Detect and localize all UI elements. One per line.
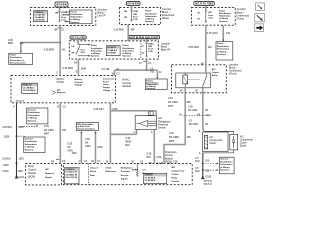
svg-text:Signal: Signal [45, 177, 52, 179]
label Body Control Module (BCM) [28, 165, 37, 178]
svg-text:DK GRN/: DK GRN/ [168, 101, 178, 104]
svg-text:Systems: Systems [145, 20, 154, 23]
label 0.8 BLK 1050 [2, 158, 24, 161]
wire DK GRN/WHT 766 HVAC pin B to BCM [59, 103, 61, 164]
svg-text:5 V: 5 V [142, 170, 146, 172]
label 0.35 RED/BLK (sensor low ref) [126, 137, 132, 147]
svg-text:in Wiring: in Wiring [219, 17, 229, 20]
svg-text:DK: DK [68, 146, 72, 149]
svg-text:5 Volt: 5 Volt [106, 167, 112, 170]
svg-text:Diode: Diode [240, 144, 247, 147]
svg-text:0.35 ORN: 0.35 ORN [188, 46, 199, 49]
banner HOT AT ALL TIMES (mid-left) [70, 36, 86, 40]
reference ground distribution (upper left) [27, 108, 48, 124]
svg-text:Left I/P: Left I/P [98, 15, 106, 18]
svg-text:Systems: Systems [217, 53, 227, 56]
label 0.35 ORN 1840 [63, 67, 87, 71]
HVAC bottom pins K, B C2 [13, 106, 66, 109]
svg-text:Wiring Systems: Wiring Systems [10, 61, 27, 64]
svg-text:10 A: 10 A [208, 16, 213, 19]
svg-text:Supply: Supply [103, 87, 111, 89]
label 0.35 BRN 141 (branch) [8, 39, 24, 45]
svg-text:HOT AT ALL TIMES: HOT AT ALL TIMES [71, 36, 85, 40]
serial data wires to data link reference [81, 131, 97, 163]
svg-text:C: C [56, 72, 58, 75]
svg-text:in Wiring: in Wiring [122, 52, 132, 55]
A/C refrigerant pressure sensor (solid box with transducer symbol) [135, 112, 156, 130]
svg-text:Request: Request [57, 91, 66, 94]
svg-text:Right I/P: Right I/P [161, 49, 171, 52]
svg-text:2750: 2750 [112, 108, 118, 111]
svg-text:FUSE ID: FUSE ID [107, 47, 116, 49]
body control module BCM (dashed box) [26, 163, 62, 185]
label 0.35 RED/BLK 2701 [147, 152, 163, 159]
svg-text:0.35: 0.35 [188, 105, 193, 108]
svg-text:766: 766 [62, 129, 67, 132]
svg-text:Schematics: Schematics [220, 163, 233, 166]
fuse A/C CRUISE 10A [55, 11, 70, 22]
svg-text:HOT IN RUN AND START: HOT IN RUN AND START [130, 35, 159, 39]
svg-text:Relay: Relay [212, 75, 219, 77]
svg-text:Ground: Ground [16, 101, 25, 103]
svg-text:C2 48 BLK: C2 48 BLK [145, 179, 156, 182]
label 0.35 GRY 2750 [94, 108, 119, 111]
svg-text:C200 ID: C200 ID [145, 175, 153, 177]
svg-text:WHT: WHT [168, 105, 174, 108]
svg-text:YEL: YEL [150, 71, 155, 74]
svg-text:HOT IN RUN: HOT IN RUN [128, 2, 139, 6]
A/C compressor clutch (solid box with coil) [203, 132, 229, 152]
svg-text:Pressure: Pressure [121, 171, 131, 173]
wire sensor A signal to PCM [153, 129, 155, 163]
svg-text:Systems: Systems [146, 87, 156, 90]
svg-text:Schematics: Schematics [70, 16, 83, 19]
label 0.5 YEL 32 (left) [101, 68, 119, 71]
wire YEL 32 from Right I/P C1 to HVAC and reference [115, 59, 159, 79]
pin B (sensor top tab) [150, 113, 152, 116]
svg-text:BRN: BRN [8, 42, 13, 45]
svg-text:0.5 YEL: 0.5 YEL [101, 68, 110, 71]
HVAC internal text: right column [103, 77, 114, 91]
svg-text:0.35 BLK: 0.35 BLK [2, 126, 12, 129]
inline connector C112 (dashed) [179, 114, 211, 117]
reference ground distribution (right) [219, 157, 234, 174]
svg-text:0.8 BLK: 0.8 BLK [2, 158, 11, 161]
svg-text:Schematics: Schematics [219, 15, 231, 18]
wire BRN 141 from Left I/P fuse B4 to HVAC pin C [59, 26, 61, 76]
svg-text:Ignition: Ignition [57, 78, 66, 81]
svg-text:Distribution: Distribution [25, 140, 38, 143]
label 0.35 DK GRN 1061 [68, 142, 78, 154]
svg-text:HVAC: HVAC [148, 42, 154, 45]
wire PNK 439 from fuse block to Right I/P junction block [127, 25, 129, 42]
reference power distribution (left I/P) [70, 10, 93, 24]
junction block - left I/P (dashed box) [30, 8, 95, 26]
reference table (PCM 2) [144, 173, 167, 183]
svg-text:12.08 M7: 12.08 M7 [107, 53, 117, 55]
svg-text:Distribution: Distribution [220, 160, 233, 163]
reference text power distribution (box2) [145, 10, 157, 24]
dashed arrow S208 to ground reference 2 [4, 135, 26, 138]
svg-text:A/C-: A/C- [61, 11, 66, 14]
svg-text:in Wiring: in Wiring [145, 18, 155, 21]
arrows to power distribution reference [78, 44, 90, 57]
svg-text:439: 439 [130, 29, 135, 32]
svg-text:(Rear): (Rear) [162, 17, 169, 20]
icon button diagonal-arrow 1 [256, 3, 265, 11]
svg-text:1050: 1050 [18, 158, 24, 161]
label 0.35 BRN 141 (main) [44, 49, 66, 52]
wire BLK 150 clutch to ground G105 [202, 153, 204, 177]
reference text power distribution (right I/P left) [91, 44, 103, 57]
svg-text:Power: Power [219, 9, 225, 12]
junction block - right I/P (dashed box) [69, 41, 158, 59]
svg-text:459: 459 [187, 101, 192, 104]
svg-text:Refrigerant: Refrigerant [121, 167, 133, 170]
svg-text:RED/: RED/ [126, 141, 132, 144]
svg-text:0.35 ORN: 0.35 ORN [63, 67, 74, 70]
svg-text:Relay: Relay [172, 177, 179, 179]
svg-text:2701: 2701 [156, 156, 162, 159]
svg-text:WHT: WHT [44, 132, 50, 135]
svg-text:Distribution: Distribution [10, 56, 23, 59]
label ORN 140 (to relay) [188, 46, 212, 49]
banner HOT AT ALL TIMES (right) [194, 2, 215, 6]
banner HOT IN RUN (middle) [127, 2, 141, 6]
HVAC internal text: Ground [16, 101, 25, 103]
svg-text:10 A: 10 A [133, 18, 138, 21]
ground G105 [201, 176, 212, 186]
svg-text:C2=48 BK: C2=48 BK [34, 16, 45, 19]
label 0.5 BLK 150 (upper) [195, 157, 210, 163]
svg-text:Serial: Serial [90, 171, 96, 173]
svg-text:BLK: BLK [195, 160, 200, 163]
label Junction Block Right I/P [161, 42, 171, 51]
svg-text:in Wiring: in Wiring [91, 52, 101, 55]
label 0.5 DK GRN 59 [189, 120, 209, 127]
svg-text:TB: TB [124, 17, 127, 19]
svg-text:C112: C112 [205, 114, 211, 117]
reference data link communications [76, 123, 98, 131]
relay A/C CMPRSR (solid box, coil + switch) [176, 73, 211, 88]
svg-text:Reference: Reference [142, 173, 153, 175]
banner HOT IN RUN (left) [55, 2, 68, 7]
pin B4 C1 [54, 28, 65, 32]
svg-text:Sensor: Sensor [121, 175, 129, 177]
svg-text:Reference: Reference [106, 171, 117, 173]
svg-text:A/C: A/C [212, 68, 216, 71]
svg-text:Distribution: Distribution [219, 12, 231, 15]
svg-text:S209: S209 [3, 164, 9, 167]
svg-text:Lamp: Lamp [103, 84, 109, 86]
svg-text:Schematics: Schematics [145, 15, 157, 18]
pins 84 and 87 [180, 90, 199, 93]
label 0.35 DK GRN 1049 [85, 138, 103, 149]
svg-text:0.35 ORN: 0.35 ORN [207, 32, 218, 35]
svg-text:in Wiring: in Wiring [28, 118, 38, 120]
label 0.5 BLK 150 (lower) [195, 167, 210, 173]
label Junction Block Underhood (Front) middle [229, 63, 242, 75]
svg-text:1050: 1050 [18, 170, 24, 173]
wire stub banner to HVAC IGN fuse [146, 39, 148, 43]
svg-text:C1=BLU 80: C1=BLU 80 [65, 172, 77, 174]
label A/C Compressor Clutch Diode [240, 135, 253, 147]
svg-text:Voltage - 1: Voltage - 1 [103, 89, 114, 92]
label 0.35 DK GRN 59 [188, 105, 208, 112]
svg-text:Voltage: Voltage [57, 80, 66, 83]
BCM internal text A/C Request [45, 168, 54, 179]
svg-text:1049: 1049 [97, 146, 103, 149]
svg-text:0.35: 0.35 [169, 132, 174, 135]
svg-text:Distribution: Distribution [91, 47, 103, 50]
svg-text:Instrument: Instrument [103, 77, 114, 80]
breaker symbol and pins L8 HF [72, 46, 87, 55]
svg-text:Schematics: Schematics [25, 143, 38, 146]
reference table (right I/P) [106, 46, 120, 56]
svg-text:1840: 1840 [81, 67, 87, 70]
svg-text:0.35: 0.35 [126, 137, 131, 140]
reference text power distribution (right I/P right) [122, 44, 134, 57]
svg-text:A/C: A/C [208, 11, 212, 14]
svg-text:Distribution: Distribution [217, 45, 230, 48]
svg-text:141: 141 [61, 49, 66, 52]
svg-text:C3=CLR 56: C3=CLR 56 [65, 177, 77, 179]
svg-text:C1 48 BLK: C1 48 BLK [145, 176, 156, 179]
svg-text:0.35: 0.35 [44, 125, 49, 128]
reference text power distribution (box3) [219, 9, 231, 22]
label 0.5 YEL 32 (right) [150, 68, 162, 75]
svg-text:DK GRN: DK GRN [188, 109, 198, 112]
reference table (HVAC) [22, 83, 38, 93]
svg-text:Systems: Systems [122, 55, 131, 58]
reference power distribution (ORN 140) [216, 42, 233, 60]
pin D4 [74, 62, 78, 65]
svg-text:Systems: Systems [25, 148, 35, 151]
svg-text:Communications: Communications [77, 128, 96, 131]
svg-text:140: 140 [226, 32, 231, 35]
svg-text:Sensor: Sensor [158, 127, 166, 130]
svg-text:10 A: 10 A [81, 51, 86, 54]
svg-text:A/C: A/C [172, 166, 176, 169]
svg-text:WHT: WHT [169, 140, 175, 143]
pin 47 C1 [139, 62, 152, 66]
svg-text:Signal: Signal [121, 178, 128, 180]
svg-text:1050: 1050 [18, 126, 24, 129]
svg-text:Schematics: Schematics [122, 49, 134, 52]
reference power distribution (YEL 32) [145, 79, 167, 90]
pin B (clutch) [199, 130, 201, 133]
svg-text:HOT IN RUN: HOT IN RUN [56, 3, 67, 7]
svg-text:0.35 BRN: 0.35 BRN [44, 49, 55, 52]
svg-text:0.35 GRY: 0.35 GRY [94, 108, 105, 111]
svg-text:Schematics: Schematics [91, 49, 103, 52]
powertrain control module PCM (dashed box) [64, 163, 193, 184]
svg-text:HVAC ID: HVAC ID [23, 84, 32, 87]
svg-text:Cmpsr: Cmpsr [212, 72, 219, 74]
banner HOT IN RUN AND START [129, 35, 160, 39]
HVAC internal text: A/C Request with mark [52, 88, 66, 94]
svg-text:(Front): (Front) [237, 17, 245, 20]
wire GRY 2750 HVAC to sensor B and PCM [110, 103, 156, 164]
label HVAC Control Module [122, 78, 131, 88]
svg-text:10 A: 10 A [61, 19, 66, 22]
svg-text:in Wiring: in Wiring [220, 167, 230, 169]
svg-text:C3=56 NA: C3=56 NA [34, 19, 45, 22]
label 0.35 BLK 1050 [2, 126, 24, 129]
HVAC internal text: Ignition Voltage [57, 78, 66, 84]
HVAC top pins C, E, C2 [56, 71, 120, 76]
reference table (PCM connectors) [65, 168, 80, 184]
svg-text:Systems: Systems [219, 20, 228, 23]
svg-text:Data: Data [90, 174, 96, 177]
pin A (clutch) [199, 152, 201, 155]
svg-text:G201: G201 [18, 176, 25, 179]
svg-text:Schematics: Schematics [28, 114, 41, 117]
svg-text:Distribution: Distribution [145, 12, 157, 15]
wire stub banner to A/C fuse [205, 6, 207, 11]
svg-text:Power: Power [91, 44, 97, 47]
svg-text:0.35: 0.35 [147, 152, 152, 155]
svg-text:DK: DK [85, 142, 89, 145]
dashed arrow to ground reference 1 [18, 125, 38, 127]
svg-text:CONN ID: CONN ID [65, 169, 75, 171]
dashed arrows to ground reference [205, 163, 219, 171]
svg-text:140: 140 [208, 46, 213, 49]
wire stub banner to breaker [77, 39, 79, 44]
wire ORN 140 from A/C fuse to relay and reference [206, 25, 224, 73]
svg-text:Power: Power [145, 10, 151, 13]
svg-text:Battery: Battery [75, 78, 83, 81]
svg-text:1 BLK: 1 BLK [2, 170, 9, 173]
svg-text:Schematics in: Schematics in [10, 59, 25, 62]
label 0.35 DK GRN/WHT 459 (upper) [168, 97, 191, 108]
svg-text:Positive: Positive [75, 81, 84, 84]
label A/C Refrigerant Pressure Sensor [158, 117, 171, 129]
label 0.35 DK GRN/WHT 766 [44, 125, 67, 135]
svg-text:BLK: BLK [195, 170, 200, 173]
wire diode bottom link [203, 150, 234, 153]
svg-text:Clutch: Clutch [172, 173, 179, 176]
svg-text:Request: Request [45, 172, 54, 175]
label A/C Compressor Clutch [209, 136, 222, 145]
splice S209 [3, 164, 9, 167]
svg-text:Control: Control [172, 180, 180, 183]
PCM internal text columns [90, 168, 98, 177]
svg-text:Ground: Ground [25, 138, 34, 140]
svg-text:Voltage: Voltage [75, 84, 84, 87]
svg-text:Distribution: Distribution [122, 47, 134, 50]
svg-text:G105: G105 [205, 176, 212, 179]
label junction block (middle) [162, 8, 175, 20]
svg-text:Panel: Panel [103, 81, 109, 83]
svg-text:BLK: BLK [126, 144, 131, 147]
svg-text:0.35 PNK: 0.35 PNK [114, 29, 125, 32]
svg-text:17x48 B.5: 17x48 B.5 [107, 49, 118, 52]
fuse HVAC IGN 10A [141, 42, 154, 57]
svg-text:C1=48 WH: C1=48 WH [34, 14, 45, 17]
svg-text:HB: HB [55, 12, 59, 14]
svg-text:Ground: Ground [220, 159, 229, 161]
svg-text:Distribution: Distribution [28, 111, 41, 114]
svg-text:Module: Module [122, 84, 131, 88]
svg-text:Distribution: Distribution [70, 13, 83, 16]
sensor bottom pins C and A [134, 131, 153, 134]
label Junction Block Left I/P [98, 9, 108, 18]
label A/C CMPRSR relay [212, 68, 219, 77]
svg-text:GRN: GRN [85, 145, 91, 148]
HVAC control module (dashed box) [11, 75, 115, 102]
svg-text:BLK: BLK [147, 156, 152, 159]
svg-text:Power: Power [122, 44, 128, 47]
label Powertrain Control Module (PCM) [165, 151, 178, 164]
svg-text:A/C: A/C [45, 168, 49, 171]
svg-text:Clutch: Clutch [209, 142, 216, 145]
svg-text:(BCM): (BCM) [28, 175, 35, 178]
svg-text:1061: 1061 [72, 152, 78, 155]
svg-text:459: 459 [187, 136, 192, 139]
wire stub banner to A/C CRUISE fuse [59, 7, 61, 11]
svg-text:141: 141 [20, 42, 25, 45]
svg-text:HOT AT ALL TIMES: HOT AT ALL TIMES [195, 2, 213, 6]
junction block - underhood front (dashed box, top right) [192, 7, 236, 25]
svg-text:Systems: Systems [220, 169, 230, 172]
reference ground distribution (lower left) [24, 137, 45, 153]
svg-text:S208: S208 [4, 135, 10, 138]
junction block - underhood front (dashed box with A/C compressor relay) [172, 65, 227, 93]
svg-text:in Wiring: in Wiring [217, 51, 227, 53]
arrows into reference box [65, 11, 70, 22]
svg-text:Power: Power [217, 43, 224, 45]
svg-text:2 (4.3 L): 2 (4.3 L) [204, 182, 213, 185]
pin A4 C3 (BCM) [51, 160, 66, 163]
svg-text:Systems: Systems [70, 21, 80, 24]
svg-text:C: C [134, 131, 136, 134]
svg-text:C2=RED 80: C2=RED 80 [65, 174, 78, 176]
svg-text:C1=48 BLU: C1=48 BLU [23, 86, 35, 89]
reference table (left I/P) [34, 11, 48, 22]
svg-text:DK GRN/: DK GRN/ [169, 136, 179, 139]
label 0.35 PNK 439 [114, 29, 135, 32]
svg-text:0.35: 0.35 [168, 97, 173, 100]
svg-text:Schematics: Schematics [217, 48, 230, 51]
junction block - underhood rear (dashed box) [119, 7, 160, 24]
svg-text:(Front): (Front) [229, 73, 237, 76]
svg-text:0.35: 0.35 [85, 138, 90, 141]
reference power distribution (top left) [9, 53, 33, 64]
ground G201 [15, 176, 25, 179]
HVAC internal text: Battery Positive Voltage [75, 78, 84, 86]
svg-text:in Wiring: in Wiring [25, 147, 35, 149]
wire stub banner to PCM IGN fuse [131, 6, 133, 11]
label Junction Block Underhood (Front) top [237, 8, 250, 20]
wire DK GRN/WHT 459 relay control to PCM [164, 88, 185, 164]
svg-text:DK GRN/: DK GRN/ [44, 129, 54, 132]
svg-text:A/C: A/C [57, 88, 61, 91]
label 0.35 DK GRN/WHT 459 (lower) [169, 132, 191, 143]
fuse A/C 10A [197, 10, 214, 22]
icon button diagonal-arrow 2 [255, 13, 264, 22]
PCM pin labels row [79, 160, 172, 165]
A/C compressor clutch diode (box with diode symbol) [230, 134, 238, 150]
svg-text:C2=I-94 BLK: C2=I-94 BLK [23, 89, 36, 92]
svg-text:Compressor: Compressor [172, 171, 185, 173]
wire diode top link [204, 131, 234, 134]
wire DK GRN 59 relay to clutch [203, 88, 204, 132]
icon button right-arrow [255, 24, 264, 32]
fuse PCM B 10A [124, 10, 139, 21]
label 1 BLK 1050 [2, 170, 23, 173]
svg-text:Systems: Systems [91, 55, 100, 58]
